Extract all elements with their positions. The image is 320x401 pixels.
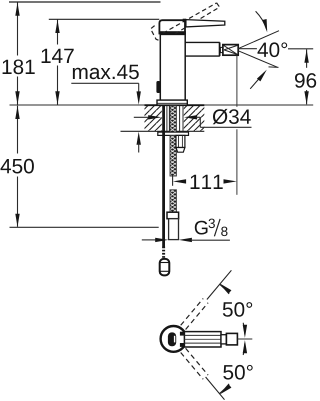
arc arrow upper 40 xyxy=(256,11,267,29)
spout xyxy=(185,42,220,56)
aerator xyxy=(223,45,238,56)
spout nub xyxy=(220,47,223,52)
pop-up knob on body xyxy=(156,81,160,93)
dimension G3/8 xyxy=(142,239,158,241)
dimension 450 xyxy=(17,106,19,227)
braided hose lower xyxy=(170,190,176,213)
top view bridge blocks xyxy=(180,332,185,336)
spray fan lower line xyxy=(238,51,277,67)
counter slab hatched right xyxy=(184,106,205,132)
faucet body xyxy=(160,34,185,100)
mounting surface line xyxy=(10,104,314,106)
top view upper 50 leg line xyxy=(207,270,232,299)
faucet cap (handle base) xyxy=(159,20,185,33)
label 50 deg upper xyxy=(223,302,252,317)
supply level line xyxy=(10,226,159,228)
counter slab top edge xyxy=(145,104,205,106)
lever handle side view xyxy=(186,20,225,27)
arc arrow lower 40 xyxy=(250,73,264,89)
label 40 deg xyxy=(258,42,288,57)
lever joint blob xyxy=(183,19,187,22)
top view axis line xyxy=(237,338,252,340)
pop-up rod xyxy=(162,106,165,247)
dimension 181 xyxy=(17,3,19,105)
counter slab bottom edge xyxy=(121,130,205,132)
top view dashed lever up 50 xyxy=(181,299,208,330)
top view lever neck xyxy=(221,335,226,344)
top view lever xyxy=(184,332,221,347)
rod end knob xyxy=(160,259,170,276)
mounting nut xyxy=(176,135,185,147)
raised lever dashed xyxy=(151,3,220,42)
top view lower 50 leg line xyxy=(206,377,225,400)
label 50 deg lower xyxy=(223,365,252,380)
dimension max.45 xyxy=(73,65,139,80)
dimension 147 xyxy=(57,20,59,105)
aerator extension line xyxy=(236,56,238,195)
rod thread xyxy=(162,247,165,259)
braided hose upper (shank) xyxy=(170,106,176,132)
leader 40 xyxy=(238,48,257,50)
braided hose mid xyxy=(170,136,176,177)
dimension 111 xyxy=(172,176,174,186)
upper 50 arc segments xyxy=(220,284,230,294)
reference line top (181 level) xyxy=(9,1,161,3)
counter slab hatched left xyxy=(145,106,162,132)
hose connector tube G3/8 xyxy=(169,219,179,240)
top view lever end knob xyxy=(226,333,237,345)
dimension diameter 34 xyxy=(134,116,151,118)
reference line 147 level xyxy=(49,18,160,20)
spray fan upper line xyxy=(238,31,279,49)
faucet cap bottom ring xyxy=(159,31,186,34)
dimension 96 xyxy=(306,49,308,104)
washer plate xyxy=(158,132,189,135)
hole stud lines xyxy=(167,106,183,132)
hose hex collar xyxy=(167,212,179,219)
top view inner slot xyxy=(168,332,176,346)
top view dashed lever down 50 xyxy=(181,348,208,379)
top view circle (faucet body) xyxy=(161,326,187,352)
base flange xyxy=(157,100,187,105)
lower 50 arc segments xyxy=(220,384,230,394)
